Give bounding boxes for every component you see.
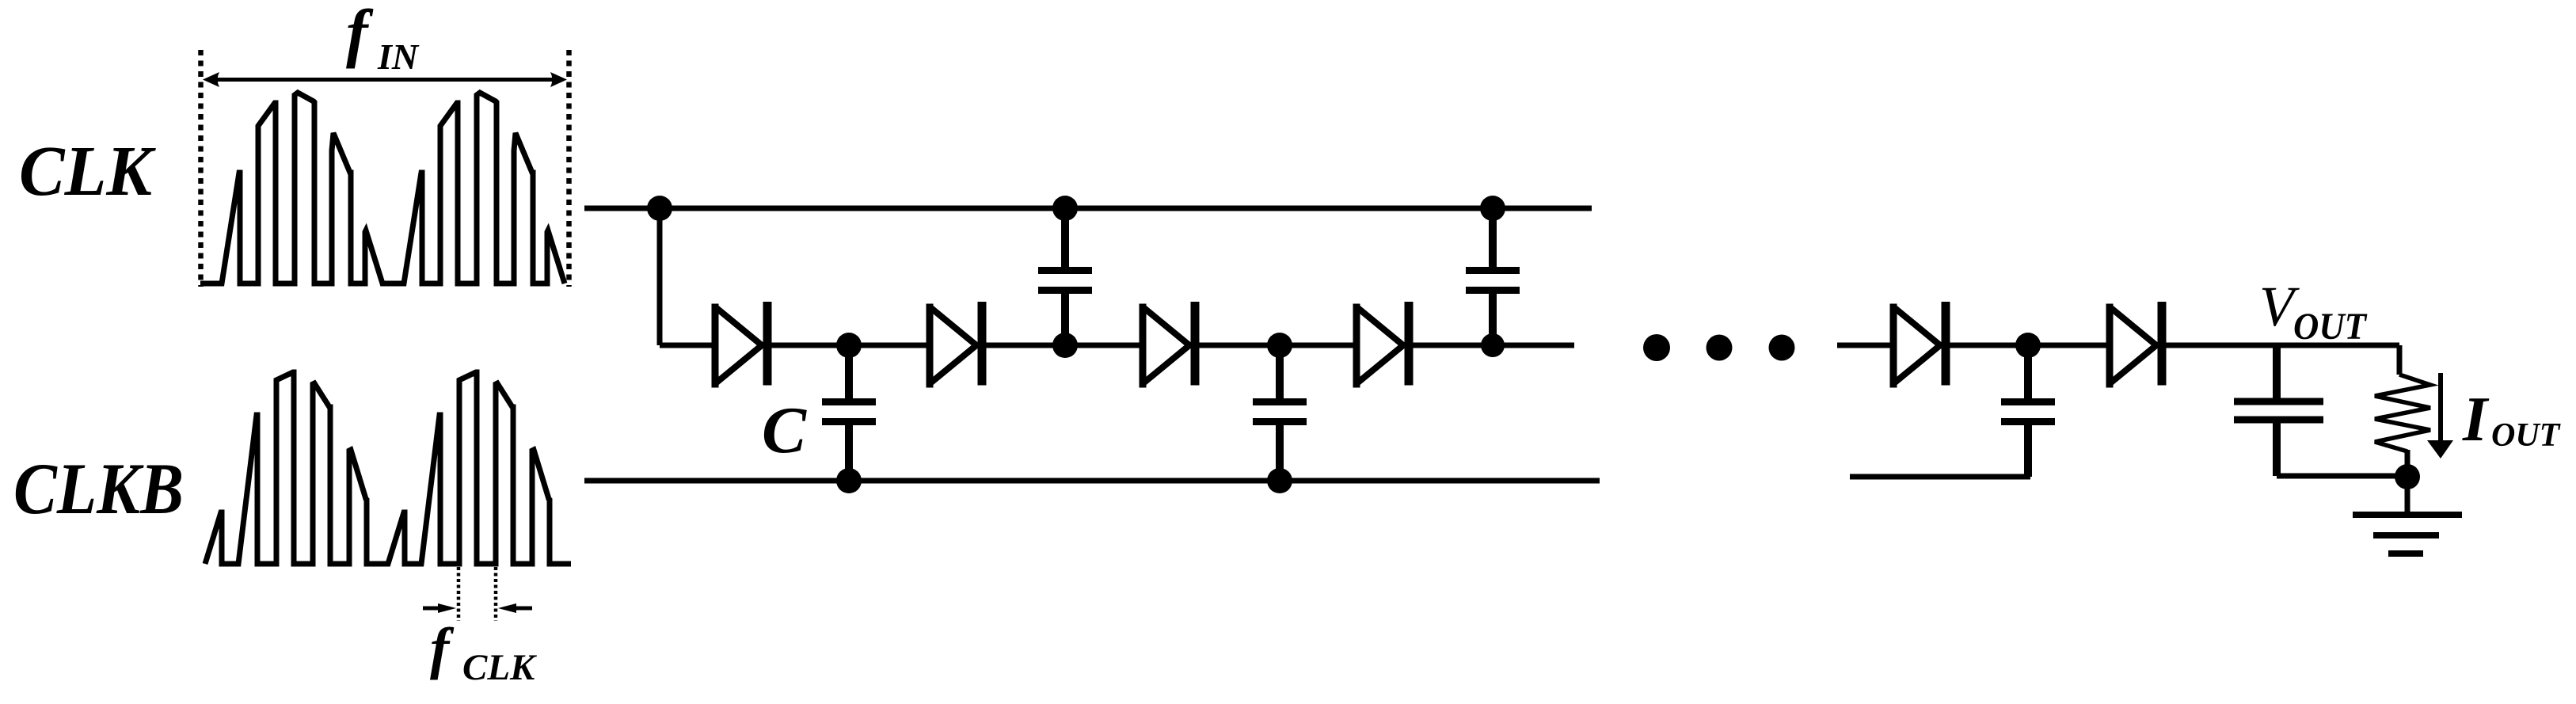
svg-text:C: C [762, 394, 807, 467]
svg-text:CLK: CLK [19, 132, 157, 211]
svg-text:CLKB: CLKB [13, 448, 184, 529]
svg-text:OUT: OUT [2491, 417, 2562, 454]
svg-text:IN: IN [377, 36, 420, 77]
svg-text:OUT: OUT [2293, 306, 2368, 348]
svg-text:I: I [2462, 385, 2490, 455]
svg-text:CLK: CLK [462, 647, 537, 688]
